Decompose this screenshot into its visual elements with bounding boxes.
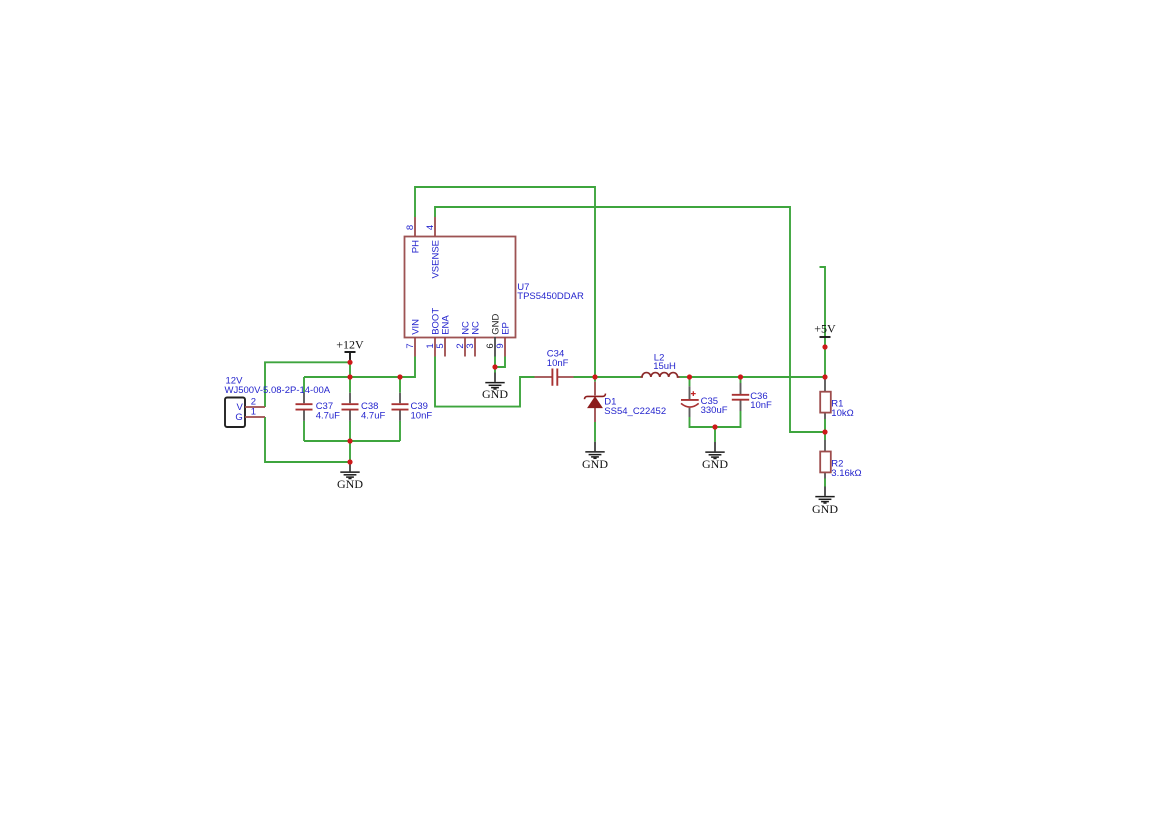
wire switch node down to D1	[594, 377, 596, 382]
power flag +12V	[345, 352, 356, 362]
wire C39 top drop	[399, 377, 401, 393]
svg-text:7: 7	[405, 343, 416, 348]
wire VSENSE net: pin4 up, across, down right side, to R1/R2 divider	[435, 207, 824, 432]
svg-text:SS54_C22452: SS54_C22452	[604, 406, 666, 417]
wire connector G pin to ground node	[265, 417, 350, 462]
svg-text:VSENSE: VSENSE	[430, 240, 441, 279]
ground flag at R2	[815, 487, 834, 504]
svg-text:5: 5	[435, 343, 446, 348]
wire PH net: pin8 up, across top, down to switch node	[415, 187, 595, 376]
junction node output rail R1	[822, 374, 827, 379]
pin 7 VIN stub	[414, 337, 416, 357]
wire divider node to R2	[824, 432, 826, 440]
resistor R2	[824, 440, 826, 479]
svg-text:EP: EP	[500, 322, 511, 335]
connector pin 1 stub	[245, 416, 265, 418]
diode D1 schottky	[594, 382, 596, 422]
connector J 12V body	[225, 398, 245, 428]
wire switch node to L2	[595, 376, 641, 378]
svg-text:GND: GND	[702, 457, 728, 471]
svg-text:4.7uF: 4.7uF	[361, 411, 385, 422]
power flag +5V	[820, 336, 831, 338]
svg-text:330uF: 330uF	[701, 405, 728, 416]
ground flag at pin6	[485, 373, 504, 390]
wire C38 bottom drop	[349, 421, 351, 441]
junction node output ground	[712, 424, 717, 429]
svg-text:G: G	[235, 412, 242, 423]
junction node switch/phase	[592, 374, 597, 379]
wire ground drop from output caps	[714, 427, 716, 442]
wire C37 bottom drop	[303, 421, 305, 441]
junction node C38 rail top	[347, 374, 352, 379]
pin 9 EP stub	[504, 337, 506, 357]
svg-text:GND: GND	[582, 457, 608, 471]
pin 2 NC stub	[464, 337, 466, 357]
pin 6 GND stub	[494, 337, 496, 357]
svg-text:WJ500V-5.08-2P-14-00A: WJ500V-5.08-2P-14-00A	[225, 385, 331, 396]
junction node +5V flag	[822, 344, 827, 349]
inductor L2	[641, 373, 680, 377]
svg-text:ENA: ENA	[440, 315, 451, 335]
op-amp U7 body TPS5450DDAR	[405, 237, 516, 338]
capacitor C36	[740, 383, 742, 411]
wire C34 right lead to switch node	[574, 376, 596, 378]
wire C35 top drop	[689, 377, 691, 386]
connector pin 2 stub	[245, 406, 265, 408]
wire C39 bottom drop	[399, 421, 401, 441]
svg-text:10nF: 10nF	[547, 358, 569, 369]
junction node input ground	[347, 459, 352, 464]
wire ground drop from cap rail	[349, 441, 351, 462]
wire +5V stub	[820, 267, 826, 337]
svg-text:8: 8	[405, 225, 416, 230]
wire VIN: pin7 down to +12V rail	[304, 357, 415, 378]
svg-text:9: 9	[495, 343, 506, 348]
wire C36 top drop	[740, 377, 742, 383]
junction node C36 top	[738, 374, 743, 379]
wire R1 bottom to divider node	[824, 419, 826, 432]
svg-text:+12V: +12V	[336, 338, 364, 352]
svg-text:10nF: 10nF	[750, 400, 772, 411]
ground flag at D1	[585, 442, 604, 459]
svg-text:1: 1	[251, 407, 256, 418]
svg-text:10kΩ: 10kΩ	[831, 408, 853, 419]
pin 5 ENA stub	[444, 337, 446, 357]
svg-text:4.7uF: 4.7uF	[316, 411, 340, 422]
wire C38 top drop	[349, 377, 351, 393]
svg-text:PH: PH	[410, 240, 421, 253]
junction node C35 top	[687, 374, 692, 379]
wire +12V node down to rail	[349, 362, 351, 377]
junction node C38 rail bottom	[347, 438, 352, 443]
resistor R1	[824, 379, 826, 419]
junction node C39 rail top	[397, 374, 402, 379]
wire BOOT: pin1 down, right, up to C34	[435, 357, 535, 407]
pin 1 BOOT stub	[434, 337, 436, 357]
wire C35 C36 ground rail	[690, 411, 741, 427]
svg-text:4: 4	[425, 225, 436, 230]
wire output rail to R1	[690, 376, 826, 378]
capacitor C38	[349, 393, 351, 421]
junction node pin6 ground	[492, 364, 497, 369]
junction node +12V	[347, 360, 352, 365]
ground flag at input caps	[340, 462, 359, 479]
capacitor C34	[535, 376, 574, 378]
svg-text:NC: NC	[470, 321, 481, 335]
wire L2 to output node	[680, 376, 690, 378]
capacitor C35 polarized	[689, 386, 691, 417]
pin 8 PH stub	[414, 217, 416, 237]
junction node divider	[822, 429, 827, 434]
svg-text:GND: GND	[482, 387, 508, 401]
svg-text:+5V: +5V	[814, 322, 836, 336]
capacitor C39	[399, 393, 401, 421]
svg-text:TPS5450DDAR: TPS5450DDAR	[517, 291, 584, 302]
wire D1 anode to ground flag	[594, 422, 596, 442]
svg-text:3.16kΩ: 3.16kΩ	[831, 468, 861, 479]
svg-text:10nF: 10nF	[411, 411, 433, 422]
svg-text:GND: GND	[337, 477, 363, 491]
pin 3 NC stub	[474, 337, 476, 357]
wire C37 top drop	[303, 377, 305, 393]
capacitor C37	[303, 393, 305, 421]
wire +5V flag to output rail	[824, 337, 826, 377]
wire input cap ground rail	[304, 440, 400, 442]
svg-text:3: 3	[465, 343, 476, 348]
pin 4 VSENSE stub	[434, 217, 436, 237]
wire connector V pin to +12V node	[265, 362, 350, 407]
svg-text:15uH: 15uH	[653, 361, 676, 372]
wire pin9 EP hook to pin6	[495, 357, 505, 368]
svg-text:GND: GND	[812, 502, 838, 516]
wire pin6 to ground flag	[494, 357, 496, 373]
svg-text:VIN: VIN	[410, 319, 421, 335]
ground flag at output caps	[705, 442, 724, 459]
wire R2 bottom to ground flag	[824, 479, 826, 487]
